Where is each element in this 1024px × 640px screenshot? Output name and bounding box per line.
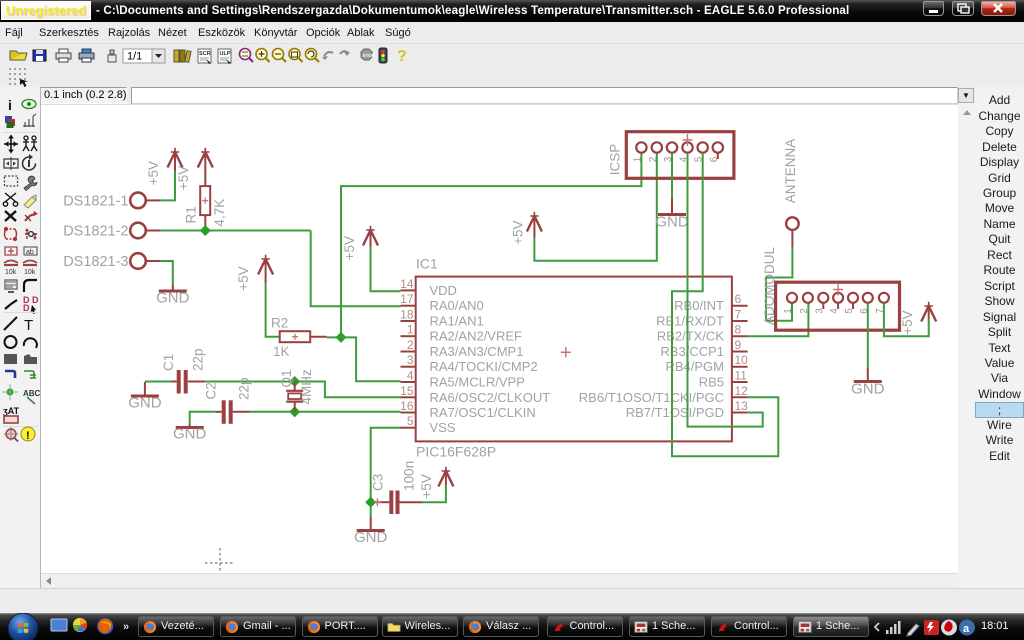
wire ICSP pin3 to GND <box>671 153 673 198</box>
stop sign <box>361 49 375 60</box>
connector ICSP <box>608 132 734 179</box>
svg-text:14: 14 <box>400 277 414 291</box>
svg-text:2: 2 <box>799 308 810 314</box>
svg-text:ICSP: ICSP <box>608 144 623 176</box>
svg-text:+5V: +5V <box>510 220 525 244</box>
change wrench icon <box>24 176 37 190</box>
cam/lamp small icon <box>108 50 116 62</box>
wire MCLR to pin4 <box>341 337 401 381</box>
IC1 pin 2 RA3/AN3/CMP1 <box>401 338 524 359</box>
svg-text:DS1821-3: DS1821-3 <box>63 254 128 270</box>
svg-text:4MHz: 4MHz <box>299 369 314 405</box>
wire VSS pin5 to C3 <box>371 428 401 498</box>
svg-text:R1: R1 <box>183 206 198 223</box>
IC1 pin 6 RB0/INT <box>674 292 747 313</box>
svg-text:?: ? <box>397 48 407 65</box>
svg-text:!: ! <box>26 430 30 442</box>
svg-text:C1: C1 <box>161 354 176 371</box>
value icon 1 <box>4 261 18 277</box>
svg-text:RA1/AN1: RA1/AN1 <box>430 314 484 329</box>
wire C2 to GND <box>190 412 216 424</box>
svg-text:2: 2 <box>407 338 414 352</box>
value icon 2 <box>23 261 37 277</box>
zoom out <box>273 49 287 63</box>
miter icon <box>24 280 37 292</box>
svg-text:SCR: SCR <box>199 51 211 57</box>
invoke icon <box>23 295 39 314</box>
wire DS1821-3 to GND <box>160 261 173 285</box>
move icon <box>4 135 18 154</box>
circle icon <box>5 336 17 348</box>
svg-text:ʒAT: ʒAT <box>3 406 20 416</box>
name icon <box>24 247 37 256</box>
connector DS1821-2 <box>63 223 160 240</box>
svg-text:RB3/CCP1: RB3/CCP1 <box>660 344 724 359</box>
capacitor C3 100n <box>370 461 421 514</box>
wire DS1821-1 to +5V <box>160 170 175 200</box>
paste icon <box>24 195 36 208</box>
svg-text:+5V: +5V <box>176 166 191 190</box>
svg-text:VSS: VSS <box>430 420 456 435</box>
svg-text:10k: 10k <box>5 269 17 276</box>
svg-text:»: » <box>123 621 129 633</box>
pinswap icon <box>5 228 17 241</box>
display layers icon <box>5 116 15 128</box>
supply +5V P4 (VDD) <box>342 226 378 261</box>
svg-text:16: 16 <box>400 399 414 413</box>
wire ADOMODUL pin7 to +5V <box>884 303 929 336</box>
wire icon <box>4 317 17 330</box>
svg-text:RA0/AN0: RA0/AN0 <box>430 298 484 313</box>
svg-text:a: a <box>963 623 970 635</box>
show/eye icon <box>22 100 36 109</box>
junction Q1 top <box>289 376 300 387</box>
ADOMODUL pin 5 number <box>844 308 855 314</box>
junction R1/DQ <box>200 225 211 236</box>
zoom redraw <box>306 49 320 63</box>
ICSP pin 5 number <box>694 156 705 162</box>
erc box icon <box>4 416 18 423</box>
rotate icon <box>23 154 36 170</box>
net icon <box>24 371 36 378</box>
svg-text:RB6/T1OSO/T1CKI/PGC: RB6/T1OSO/T1CKI/PGC <box>579 390 724 405</box>
svg-text:7: 7 <box>735 308 742 322</box>
save floppy icon <box>33 50 46 61</box>
svg-text:+5V: +5V <box>342 236 357 260</box>
group icon <box>5 176 18 186</box>
svg-text:1: 1 <box>783 308 794 314</box>
split icon <box>5 300 17 309</box>
supply +5V P5 (ICSP) <box>510 212 542 245</box>
redo arrow <box>340 51 350 56</box>
svg-text:Q1: Q1 <box>279 369 294 387</box>
connector DS1821-3 <box>63 253 160 270</box>
resistor R1 <box>183 186 227 227</box>
replace icon <box>5 247 17 255</box>
supply +5V P3 (R2) <box>236 255 273 291</box>
svg-text:17: 17 <box>400 292 414 306</box>
IC1 pin 4 RA5/MCLR/VPP <box>401 369 525 390</box>
IC1 pin 7 RB1/RX/DT <box>656 308 748 329</box>
svg-text:9: 9 <box>735 338 742 352</box>
placeholder toolbars filled later <box>0 44 1024 66</box>
IC1 pin 5 VSS <box>401 414 456 435</box>
traffic light <box>379 48 387 63</box>
svg-text:+5V: +5V <box>236 266 251 290</box>
wire OSC2 net C1-Q1-pin15 <box>206 382 401 398</box>
svg-text:RB5: RB5 <box>699 375 724 390</box>
IC1 pin 9 RB3/CCP1 <box>660 338 747 359</box>
IC1 pin 3 RA4/TOCKI/CMP2 <box>401 353 538 374</box>
svg-text:T: T <box>24 317 33 334</box>
svg-text:4,7K: 4,7K <box>212 199 227 227</box>
errors icon <box>4 427 18 442</box>
ADOMODUL unused pin stubs <box>823 303 853 309</box>
copy icon (two figures) <box>23 136 37 151</box>
delete icon <box>5 211 16 221</box>
svg-text:22p: 22p <box>236 377 251 400</box>
wire ADOMODUL pin6 to GND <box>867 303 869 368</box>
svg-text:15: 15 <box>400 384 414 398</box>
cursor crosshair <box>205 548 235 578</box>
svg-text:8: 8 <box>735 323 742 337</box>
IC1 pin 13 RB7/T1OSI/PGD <box>626 399 748 420</box>
connector ADOMODUL <box>762 247 900 331</box>
warning icon <box>21 427 35 442</box>
wire R2 to junction <box>327 336 338 338</box>
ICSP pin 3 number <box>663 156 674 162</box>
antenna ANTENNA <box>783 139 799 247</box>
wire +5V to VDD pin14 <box>371 247 401 291</box>
resistor R2 <box>271 316 327 360</box>
svg-text:RA2/AN2/VREF: RA2/AN2/VREF <box>430 329 523 344</box>
mirror icon <box>4 157 18 170</box>
connector DS1821-1 <box>63 193 160 210</box>
sheet combo 1/1 <box>123 49 165 63</box>
svg-text:GND: GND <box>851 381 885 398</box>
cut scissors icon <box>3 193 17 206</box>
ADOMODUL pin 2 number <box>799 308 810 314</box>
svg-text:C3: C3 <box>370 474 385 491</box>
gateswap icon <box>25 228 37 240</box>
svg-text:GND: GND <box>156 290 190 307</box>
ICSP pin 4 number <box>679 156 690 162</box>
svg-text:+5V: +5V <box>146 161 161 185</box>
wire C3 to +5V <box>422 485 446 502</box>
svg-text:18: 18 <box>400 308 414 322</box>
svg-text:RB7/T1OSI/PGD: RB7/T1OSI/PGD <box>626 405 724 420</box>
ADOMODUL pin 4 number <box>829 308 840 314</box>
junction Q1 bottom <box>289 406 300 417</box>
svg-text:DS1821-1: DS1821-1 <box>63 193 128 209</box>
IC1 pin 14 VDD <box>400 277 457 298</box>
svg-text:2: 2 <box>648 156 659 162</box>
open folder icon <box>10 51 27 60</box>
IC1 pin 11 RB5 <box>699 369 748 390</box>
print icon <box>56 49 71 62</box>
svg-text:RA7/OSC1/CLKIN: RA7/OSC1/CLKIN <box>430 405 536 420</box>
svg-text:6: 6 <box>735 292 742 306</box>
ICSP pin6 stub <box>717 153 719 159</box>
wire DQ net DS1821-2 to RA0 <box>160 231 400 307</box>
svg-text:3: 3 <box>407 353 414 367</box>
wire C1 to GND <box>145 381 171 383</box>
ADOMODUL pin 1 number <box>783 308 794 314</box>
zoom select <box>289 49 303 63</box>
crystal Q1 4MHz <box>279 369 314 412</box>
svg-text:C2: C2 <box>203 382 218 399</box>
svg-text:GND: GND <box>354 529 388 546</box>
ADOMODUL pin 7 number <box>875 308 886 314</box>
svg-text:1: 1 <box>407 323 414 337</box>
ADOMODUL pin 3 number <box>814 308 825 314</box>
svg-text:ADOMODUL: ADOMODUL <box>762 247 777 325</box>
svg-text:RA6/OSC2/CLKOUT: RA6/OSC2/CLKOUT <box>430 390 551 405</box>
svg-text:ULP: ULP <box>220 51 231 57</box>
svg-text:12: 12 <box>735 384 749 398</box>
polygon icon <box>24 354 37 364</box>
ripup icon <box>25 211 38 221</box>
IC1 pin 17 RA0/AN0 <box>400 292 484 313</box>
ULP icon <box>218 49 231 64</box>
ADOMODUL pin 6 number <box>859 308 870 314</box>
svg-text:22p: 22p <box>191 348 206 371</box>
ICSP pin 1 number <box>632 156 643 162</box>
svg-text:RA4/TOCKI/CMP2: RA4/TOCKI/CMP2 <box>430 359 538 374</box>
svg-text:RB1/RX/DT: RB1/RX/DT <box>656 314 724 329</box>
junction C3/GND <box>365 497 376 508</box>
svg-text:100n: 100n <box>401 461 416 491</box>
grid icon <box>9 68 28 87</box>
svg-text:i: i <box>8 97 12 113</box>
svg-text:1/1: 1/1 <box>127 51 142 63</box>
IC1 pin 10 RB4/PGM <box>665 353 748 374</box>
wire ICSP pin4 to RB7/PGD pin13 <box>688 153 763 427</box>
zoom fit <box>240 49 254 63</box>
ADOMODUL origin cross <box>833 284 843 296</box>
smash icon <box>5 280 17 292</box>
ICSP pin 6 number <box>709 156 720 162</box>
print setup icon <box>79 49 94 62</box>
mark icon <box>23 114 36 127</box>
svg-text:5: 5 <box>407 414 414 428</box>
bus icon <box>5 371 15 378</box>
IC1 pin 16 RA7/OSC1/CLKIN <box>400 399 536 420</box>
svg-text:4: 4 <box>407 369 414 383</box>
svg-text:1: 1 <box>632 156 643 162</box>
svg-text:PIC16F628P: PIC16F628P <box>416 444 496 460</box>
svg-text:GND: GND <box>128 395 162 412</box>
SCR script icon <box>198 49 211 64</box>
svg-text:11: 11 <box>735 369 748 383</box>
ground GND G3 (ADOMODUL) <box>851 368 885 398</box>
svg-text:RB2/TX/CK: RB2/TX/CK <box>657 329 725 344</box>
svg-text:STOP: STOP <box>363 53 375 58</box>
ground GND G4 (C3) <box>354 506 388 546</box>
IC1 pin 18 RA1/AN1 <box>400 308 484 329</box>
IC1 pin 12 RB6/T1OSO/T1CKI/PGC <box>579 384 748 405</box>
zoom in <box>256 49 270 63</box>
svg-text:13: 13 <box>735 399 749 413</box>
IC1 pin 15 RA6/OSC2/CLKOUT <box>400 384 550 405</box>
wire RB2/TX pin8 to ADOMODUL pin2 <box>748 303 809 336</box>
svg-text:DS1821-2: DS1821-2 <box>63 224 128 240</box>
ground GND G2 (ICSP) <box>655 198 689 231</box>
svg-text:RB4/PGM: RB4/PGM <box>665 359 724 374</box>
arc icon <box>24 338 37 348</box>
undo arrow <box>322 52 333 60</box>
wire antenna to ADOMODUL pin1 <box>766 247 792 321</box>
wire ICSP pin1 to MCLR junction <box>341 153 641 333</box>
capacitor C2 <box>203 377 251 423</box>
ground GND G6 (C2) <box>173 424 207 443</box>
svg-text:1K: 1K <box>273 344 290 359</box>
help question mark <box>397 48 407 65</box>
svg-text:ANTENNA: ANTENNA <box>783 139 798 204</box>
svg-text:R2: R2 <box>271 316 288 331</box>
svg-text:GND: GND <box>655 214 689 231</box>
supply +5V P2 (R1 top) <box>176 148 213 190</box>
svg-text:10k: 10k <box>24 269 36 276</box>
wire ICSP pin5 to RB6/PGC pin12 <box>672 153 778 456</box>
svg-text:IC1: IC1 <box>416 256 438 272</box>
svg-text:ab: ab <box>26 249 34 256</box>
svg-text:ABC: ABC <box>23 389 41 398</box>
junction MCLR <box>335 332 346 343</box>
svg-text:GND: GND <box>173 426 207 443</box>
capacitor C1 <box>161 348 206 393</box>
ground GND G1 <box>156 285 190 307</box>
svg-text:RA5/MCLR/VPP: RA5/MCLR/VPP <box>430 375 525 390</box>
ICSP origin cross <box>683 134 693 146</box>
wire +5V to R2 <box>266 283 280 337</box>
ground GND G5 (C1) <box>128 382 162 412</box>
supply +5V P7 (ADOMODUL) <box>900 302 936 335</box>
svg-text:10: 10 <box>735 353 749 367</box>
svg-text:D: D <box>23 303 30 313</box>
IC1 pin 1 RA2/AN2/VREF <box>401 323 523 344</box>
svg-text:RB0/INT: RB0/INT <box>674 298 724 313</box>
label icon <box>23 389 41 404</box>
svg-text:+5V: +5V <box>419 474 434 498</box>
supply +5V P6 (C3) <box>419 467 453 499</box>
wire OSC1 net C2-Q1-pin16 <box>250 411 401 413</box>
junction icon <box>2 384 18 400</box>
ICSP pin 2 number <box>648 156 659 162</box>
library icon <box>174 50 191 62</box>
wire +5V to ICSP pin2 <box>534 153 656 261</box>
svg-text:VDD: VDD <box>430 283 457 298</box>
rect icon <box>4 354 17 364</box>
IC1 pin 8 RB2/TX/CK <box>657 323 748 344</box>
IC IC1 PIC16F628P body <box>416 256 732 460</box>
svg-text:+5V: +5V <box>900 310 915 334</box>
svg-text:RA3/AN3/CMP1: RA3/AN3/CMP1 <box>430 344 524 359</box>
supply +5V P1 <box>146 148 182 186</box>
